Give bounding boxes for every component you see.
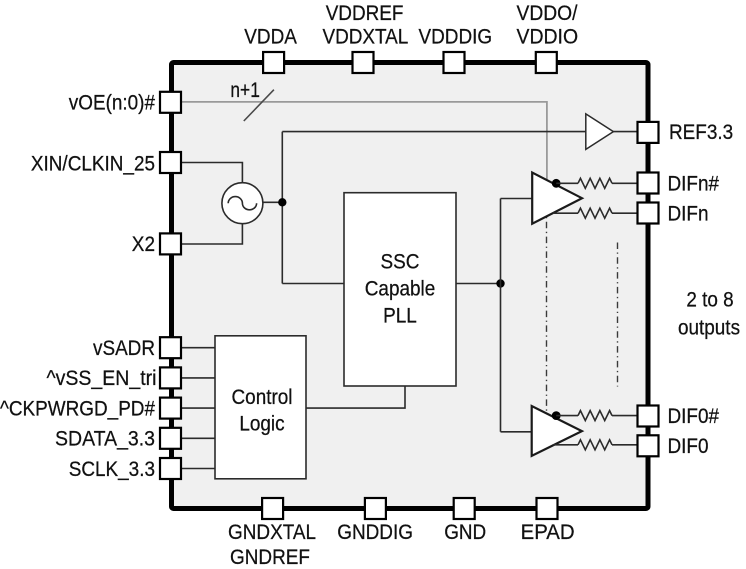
svg-text:^CKPWRGD_PD#: ^CKPWRGD_PD# (0, 396, 155, 420)
svg-text:PLL: PLL (383, 304, 417, 328)
svg-text:2 to 8: 2 to 8 (686, 287, 733, 311)
chip body U1 (172, 63, 649, 509)
svg-text:Control: Control (232, 385, 293, 409)
wire DIF0# lead left (556, 415, 578, 417)
pin vSADR (160, 337, 181, 358)
wire Control Logic to PLL (306, 386, 405, 408)
pin VDDO/VDDIO (536, 52, 557, 73)
wire XIN to oscillator (181, 163, 242, 184)
wire vSS_EN_tri to Control Logic (181, 377, 215, 379)
svg-text:DIFn#: DIFn# (668, 171, 720, 195)
pin XIN/CLKIN_25 (160, 152, 181, 173)
svg-text:vSADR: vSADR (93, 336, 155, 360)
bus slash n+1 (244, 90, 274, 121)
wire DIFn lead right (612, 212, 638, 214)
wire clock to PLL input (282, 283, 344, 285)
wire X2 to oscillator (181, 224, 242, 244)
svg-text:VDDREF: VDDREF (326, 1, 404, 25)
junction dot oscillator output (278, 198, 286, 206)
wire vOE bus (gray) (181, 102, 547, 179)
svg-text:n+1: n+1 (230, 78, 260, 102)
pin DIFn (638, 203, 659, 224)
svg-text:REF3.3: REF3.3 (669, 120, 733, 144)
pin SCLK_3.3 (160, 458, 181, 479)
pin SDATA_3.3 (160, 428, 181, 449)
wire DIF0 lead left (553, 444, 578, 446)
wire SCLK_3.3 to Control Logic (181, 468, 215, 470)
buffer DIF0 (532, 406, 582, 456)
svg-text:SSC: SSC (381, 250, 420, 274)
junction dot DIF0# (552, 411, 561, 420)
pin vSS_EN_tri (160, 367, 181, 388)
svg-text:outputs: outputs (678, 316, 740, 340)
pin REF3.3 (638, 122, 659, 143)
wire to DIF0 buffer input (501, 431, 533, 433)
pin EPAD (537, 498, 558, 519)
resistor DIFn# (578, 178, 612, 188)
svg-text:SCLK_3.3: SCLK_3.3 (69, 457, 155, 481)
resistor DIF0 (578, 440, 612, 450)
svg-text:VDDO/: VDDO/ (517, 1, 578, 25)
wire clock to REF buffer (282, 131, 586, 133)
Control Logic block (215, 336, 306, 479)
svg-text:VDDXTAL: VDDXTAL (322, 25, 408, 49)
resistor DIF0# (578, 411, 612, 421)
svg-text:vOE(n:0)#: vOE(n:0)# (69, 91, 155, 115)
buffer DIFn (532, 173, 582, 224)
svg-text:GNDREF: GNDREF (230, 545, 310, 569)
svg-text:XIN/CLKIN_25: XIN/CLKIN_25 (31, 151, 155, 175)
wire REF3.3 to pin (613, 131, 638, 133)
oscillator Y1 (222, 183, 263, 224)
svg-text:GNDXTAL: GNDXTAL (228, 520, 316, 544)
wire PLL output (456, 283, 501, 285)
pin CKPWRGD_PD# (160, 398, 181, 419)
wire clock vertical trunk (281, 132, 283, 284)
wire DIFn# lead left (556, 182, 578, 184)
wire to DIFn buffer input (501, 198, 533, 200)
junction dot DIFn# (552, 179, 561, 188)
pin GND (454, 498, 475, 519)
svg-text:DIF0: DIF0 (668, 434, 709, 458)
svg-text:Capable: Capable (365, 277, 436, 301)
pin DIF0# (638, 406, 659, 427)
pin GNDXTAL/GNDREF (262, 498, 283, 519)
pin VDDA (263, 52, 284, 73)
buffer REF3.3 (586, 114, 614, 149)
svg-text:SDATA_3.3: SDATA_3.3 (55, 427, 155, 451)
pin DIFn# (638, 173, 659, 194)
wire DIFn lead left (553, 212, 578, 214)
resistor DIFn (578, 208, 612, 218)
repetition dash-dot line left (546, 207, 548, 420)
svg-text:EPAD: EPAD (521, 520, 575, 544)
pin VDDDIG (444, 52, 465, 73)
wire vSADR to Control Logic (181, 347, 215, 349)
repetition dash-dot line right (617, 243, 619, 387)
svg-text:Logic: Logic (239, 412, 284, 436)
svg-text:VDDDIG: VDDDIG (419, 25, 493, 49)
svg-text:DIFn: DIFn (668, 201, 709, 225)
svg-text:X2: X2 (132, 232, 155, 256)
pin vOE(n:0)# (160, 92, 181, 113)
wire DIF0 lead right (612, 444, 638, 446)
junction dot PLL output (496, 279, 504, 287)
wire CKPWRGD_PD# to Control Logic (181, 407, 215, 409)
svg-text:^vSS_EN_tri: ^vSS_EN_tri (47, 366, 157, 390)
pin VDDREF/VDDXTAL (353, 52, 374, 73)
wire DIFn# lead right (612, 182, 638, 184)
svg-text:DIF0#: DIF0# (668, 404, 720, 428)
pin GNDDIG (365, 498, 386, 519)
wire oscillator output (263, 201, 282, 203)
wire SDATA_3.3 to Control Logic (181, 437, 215, 439)
wire output trunk vertical (500, 199, 502, 432)
wire DIF0# lead right (612, 415, 638, 417)
svg-text:GND: GND (444, 520, 486, 544)
PLL block (344, 193, 456, 386)
svg-text:VDDA: VDDA (244, 25, 297, 49)
pin X2 (160, 233, 181, 254)
pin DIF0 (638, 435, 659, 456)
svg-text:GNDDIG: GNDDIG (337, 520, 413, 544)
svg-text:VDDIO: VDDIO (517, 25, 579, 49)
